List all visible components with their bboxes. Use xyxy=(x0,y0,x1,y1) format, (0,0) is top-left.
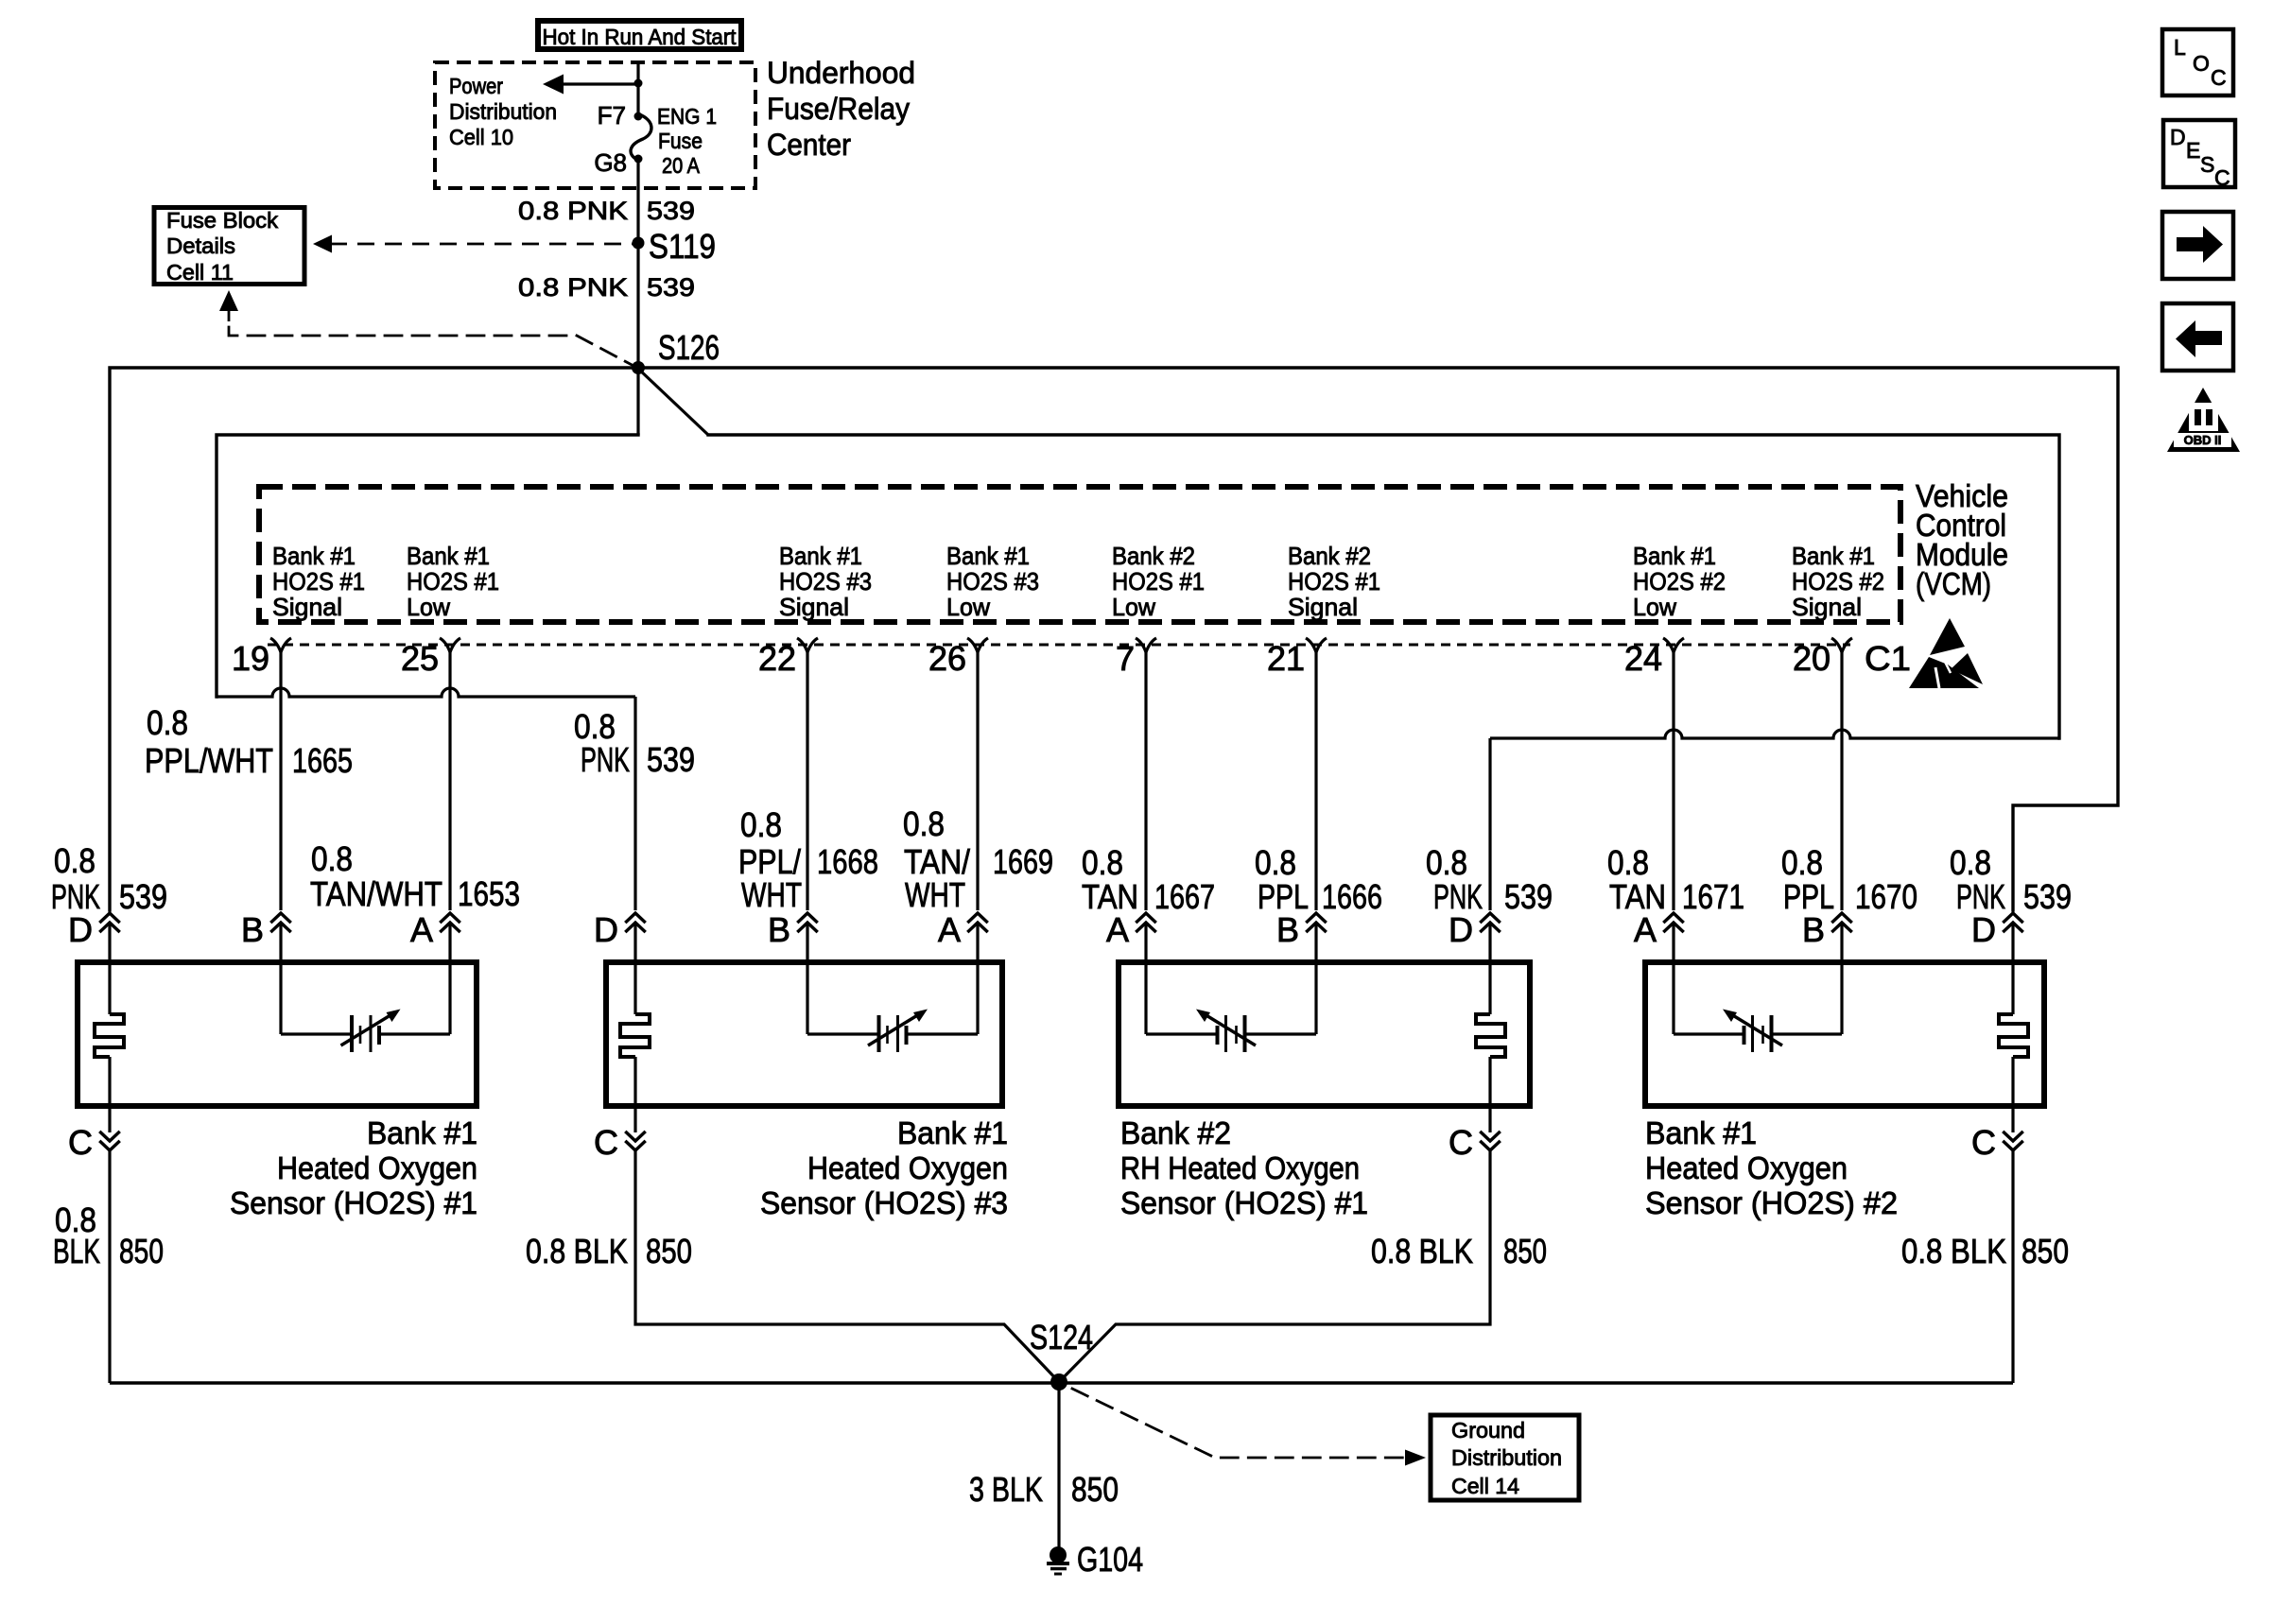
svg-text:1653: 1653 xyxy=(458,874,520,913)
sensor element wire right xyxy=(1771,1032,1842,1035)
heater element xyxy=(620,1014,650,1057)
wire heater to C pin xyxy=(108,1057,111,1132)
svg-text:Bank #1: Bank #1 xyxy=(1633,542,1716,570)
connector arrows at C pin xyxy=(2004,1132,2022,1141)
connector arrows at D pin xyxy=(1482,913,1500,922)
connector arrows at B pin xyxy=(799,913,817,922)
connector arrows at A pin xyxy=(969,913,987,922)
svg-text:1669: 1669 xyxy=(993,842,1053,881)
sensor element wire left xyxy=(807,1032,879,1035)
wire B/A into sensor element xyxy=(1840,924,1843,1034)
wire: arrow to Power Distribution xyxy=(562,82,638,85)
wire B/A into sensor element xyxy=(1144,924,1147,1034)
svg-text:E: E xyxy=(2186,138,2200,163)
icon OBD II triangle xyxy=(2167,388,2240,452)
svg-text:G8: G8 xyxy=(594,148,627,177)
wire from pin 19 xyxy=(279,650,282,910)
svg-text:0.8: 0.8 xyxy=(147,703,188,742)
wire B/A into sensor element xyxy=(448,924,451,1034)
wire from pin 24 xyxy=(1672,650,1674,910)
svg-text:850: 850 xyxy=(119,1232,164,1270)
svg-text:Cell 10: Cell 10 xyxy=(449,125,513,149)
svg-text:850: 850 xyxy=(646,1232,692,1270)
connector arrows at B pin xyxy=(272,913,290,922)
svg-text:S124: S124 xyxy=(1030,1318,1093,1356)
svg-text:19: 19 xyxy=(232,639,269,678)
wire: PNK 539 inner rail right segment xyxy=(708,435,2059,738)
label box: Ground Distribution Cell 14 xyxy=(1431,1415,1579,1500)
svg-text:F7: F7 xyxy=(598,101,626,130)
wire D into heater xyxy=(1488,924,1491,1014)
svg-text:Center: Center xyxy=(767,128,851,162)
svg-text:850: 850 xyxy=(2021,1232,2069,1270)
sensor element wire right xyxy=(906,1032,978,1035)
svg-text:539: 539 xyxy=(2023,877,2072,916)
svg-text:RH Heated Oxygen: RH Heated Oxygen xyxy=(1120,1150,1360,1185)
svg-text:D: D xyxy=(1971,910,1996,949)
svg-text:D: D xyxy=(594,910,618,949)
svg-text:Bank #1: Bank #1 xyxy=(367,1115,477,1150)
svg-text:0.8: 0.8 xyxy=(1607,843,1649,882)
svg-text:Fuse Block: Fuse Block xyxy=(166,208,279,233)
heater element xyxy=(95,1014,124,1057)
splice S119 xyxy=(633,237,645,250)
wire B/A into sensor element xyxy=(1314,924,1317,1034)
wire D into heater xyxy=(108,924,111,1014)
Underhood Fuse/Relay Center dashed box xyxy=(435,62,755,188)
wire: 0.8 PNK 539 from fuse through S126 to inner rail xyxy=(636,159,639,435)
label box: Hot In Run And Start xyxy=(538,21,741,49)
svg-text:0.8: 0.8 xyxy=(1255,843,1296,882)
svg-text:Fuse/Relay: Fuse/Relay xyxy=(767,92,910,126)
svg-text:7: 7 xyxy=(1116,639,1135,678)
svg-text:Sensor (HO2S) #1: Sensor (HO2S) #1 xyxy=(1120,1185,1368,1220)
icon right arrow xyxy=(2162,212,2233,279)
wire: inner rail left branch with hops xyxy=(217,688,635,697)
sensor element wire left xyxy=(281,1032,353,1035)
svg-text:0.8: 0.8 xyxy=(311,839,353,878)
connector arrows at D pin xyxy=(627,913,645,922)
ESD sensitivity symbol xyxy=(1930,618,1965,655)
svg-text:Signal: Signal xyxy=(272,593,342,621)
svg-text:Sensor (HO2S) #2: Sensor (HO2S) #2 xyxy=(1645,1185,1898,1220)
wire 3 BLK 850 to ground xyxy=(1057,1382,1060,1550)
wire: hot feed into fuse F7 xyxy=(636,62,639,116)
connector arrows at C pin xyxy=(1482,1132,1500,1141)
svg-text:Signal: Signal xyxy=(1288,593,1358,621)
pin 7 connector bracket xyxy=(1136,638,1156,652)
wire B/A into sensor element xyxy=(279,924,282,1034)
wire BLK 850 from RH HO2S#1 C to S124 xyxy=(1059,1150,1490,1382)
pin 26 connector bracket xyxy=(967,638,988,652)
svg-text:Sensor (HO2S) #1: Sensor (HO2S) #1 xyxy=(230,1185,477,1220)
svg-text:1667: 1667 xyxy=(1154,877,1215,916)
svg-text:Distribution: Distribution xyxy=(1451,1445,1562,1470)
connector arrows at A pin xyxy=(1665,913,1683,922)
heater element xyxy=(1999,1014,2028,1057)
svg-text:Ground: Ground xyxy=(1451,1418,1525,1443)
svg-text:Fuse: Fuse xyxy=(658,129,703,153)
svg-text:Underhood: Underhood xyxy=(767,56,915,90)
svg-text:D: D xyxy=(68,910,93,949)
svg-text:ENG 1: ENG 1 xyxy=(657,104,717,129)
wire BLK 850 bottom rail xyxy=(110,1381,2013,1385)
svg-text:HO2S #3: HO2S #3 xyxy=(946,567,1039,596)
svg-text:Heated Oxygen: Heated Oxygen xyxy=(1645,1150,1848,1185)
pin 25 connector bracket xyxy=(440,638,460,652)
wire heater to C pin xyxy=(1488,1057,1491,1132)
sensor element wire right xyxy=(1244,1032,1316,1035)
wire: PNK 539 inner rail left segment xyxy=(217,435,638,697)
connector arrows at C pin xyxy=(101,1132,119,1141)
wire D into heater xyxy=(2011,924,2014,1014)
svg-text:Details: Details xyxy=(166,233,235,258)
svg-text:C: C xyxy=(68,1123,93,1162)
svg-text:HO2S #3: HO2S #3 xyxy=(779,567,872,596)
svg-text:TAN/WHT: TAN/WHT xyxy=(310,874,442,913)
svg-text:Heated Oxygen: Heated Oxygen xyxy=(807,1150,1008,1185)
svg-text:Sensor (HO2S) #3: Sensor (HO2S) #3 xyxy=(760,1185,1008,1220)
svg-text:0.8: 0.8 xyxy=(1950,843,1991,882)
svg-text:B: B xyxy=(1276,910,1299,949)
svg-text:O: O xyxy=(2193,51,2210,76)
svg-text:1668: 1668 xyxy=(817,842,878,881)
node: junction to Power Distribution arrow xyxy=(634,79,643,88)
pin 21 connector bracket xyxy=(1306,638,1327,652)
svg-text:HO2S #1: HO2S #1 xyxy=(272,567,365,596)
svg-text:0.8: 0.8 xyxy=(1082,843,1123,882)
svg-text:BLK: BLK xyxy=(53,1232,100,1270)
svg-text:C: C xyxy=(1449,1123,1473,1162)
svg-text:22: 22 xyxy=(758,639,796,678)
svg-text:PNK: PNK xyxy=(581,740,630,779)
svg-text:A: A xyxy=(938,910,961,949)
svg-text:Signal: Signal xyxy=(779,593,849,621)
wire: down to HO2S#3-D xyxy=(633,697,636,910)
svg-text:21: 21 xyxy=(1267,639,1305,678)
svg-text:Bank #2: Bank #2 xyxy=(1288,542,1371,570)
svg-text:Signal: Signal xyxy=(1792,593,1862,621)
svg-text:0.8: 0.8 xyxy=(903,804,945,843)
svg-text:850: 850 xyxy=(1503,1232,1547,1270)
svg-text:HO2S #1: HO2S #1 xyxy=(407,567,499,596)
wire from pin 26 xyxy=(976,650,979,910)
svg-text:Bank #2: Bank #2 xyxy=(1120,1115,1231,1150)
svg-text:S: S xyxy=(2200,152,2214,177)
arrowhead left xyxy=(543,75,564,95)
arrowhead to Fuse Block Details xyxy=(313,235,332,253)
svg-text:Bank #1: Bank #1 xyxy=(897,1115,1008,1150)
icon DESC xyxy=(2163,120,2235,187)
svg-text:Power: Power xyxy=(449,74,503,98)
Vehicle Control Module (VCM) dashed box xyxy=(259,487,1900,622)
node F7 xyxy=(634,112,643,121)
svg-text:Bank #1: Bank #1 xyxy=(779,542,862,570)
splice S126 xyxy=(632,361,645,374)
wire from pin 21 xyxy=(1314,650,1317,910)
svg-text:A: A xyxy=(1634,910,1657,949)
sensor element wire left xyxy=(1674,1032,1744,1035)
svg-text:Bank #1: Bank #1 xyxy=(272,542,356,570)
svg-text:3 BLK: 3 BLK xyxy=(969,1470,1043,1509)
svg-text:Heated Oxygen: Heated Oxygen xyxy=(277,1150,477,1185)
svg-text:HO2S #2: HO2S #2 xyxy=(1633,567,1726,596)
svg-text:0.8: 0.8 xyxy=(740,805,782,844)
svg-text:HO2S #2: HO2S #2 xyxy=(1792,567,1884,596)
svg-text:Bank #1: Bank #1 xyxy=(407,542,490,570)
wire from pin 25 xyxy=(448,650,451,910)
svg-text:Bank #2: Bank #2 xyxy=(1112,542,1195,570)
sensor HO2S #2 box xyxy=(1645,962,2044,1106)
svg-text:24: 24 xyxy=(1624,639,1662,678)
svg-text:C: C xyxy=(2214,165,2230,190)
fuse ENG 1 Fuse 20 A xyxy=(631,114,651,160)
dashed ref from S126 to Fuse Block Details xyxy=(219,290,238,311)
wire heater to C pin xyxy=(2011,1057,2014,1132)
connector C1 dashed edge xyxy=(268,644,1850,647)
svg-text:20: 20 xyxy=(1793,639,1831,678)
svg-text:B: B xyxy=(768,910,790,949)
svg-text:OBD II: OBD II xyxy=(2184,433,2222,447)
pin 24 connector bracket xyxy=(1663,638,1684,652)
pin 20 connector bracket xyxy=(1831,638,1852,652)
connector arrows at B pin xyxy=(1833,913,1851,922)
wire from pin 7 xyxy=(1144,650,1147,910)
variable resistance sensing element xyxy=(877,1015,881,1052)
svg-text:L: L xyxy=(2174,35,2186,60)
variable resistance sensing element xyxy=(350,1015,354,1052)
wire BLK 850 right rail down xyxy=(2011,1150,2014,1383)
svg-text:G104: G104 xyxy=(1077,1540,1143,1579)
label box: Fuse Block Details Cell 11 xyxy=(154,208,304,285)
svg-text:WHT: WHT xyxy=(741,875,802,914)
svg-text:A: A xyxy=(410,910,433,949)
sensor RH HO2S #1 box xyxy=(1119,962,1530,1106)
connector arrows at A pin xyxy=(442,913,460,922)
svg-text:WHT: WHT xyxy=(905,875,965,914)
svg-text:539: 539 xyxy=(119,877,167,916)
svg-text:1671: 1671 xyxy=(1682,877,1744,916)
wire: down to RH HO2S#1-D xyxy=(1488,738,1491,910)
svg-text:B: B xyxy=(241,910,264,949)
wire: inner rail right branch with hops xyxy=(1490,730,2059,738)
connector arrows at C pin xyxy=(627,1132,645,1141)
svg-text:Low: Low xyxy=(946,593,990,621)
svg-text:A: A xyxy=(1106,910,1129,949)
svg-text:HO2S #1: HO2S #1 xyxy=(1112,567,1205,596)
svg-text:539: 539 xyxy=(647,740,695,779)
wire D into heater xyxy=(633,924,636,1014)
sensor element wire left xyxy=(1146,1032,1218,1035)
svg-text:Hot In Run And Start: Hot In Run And Start xyxy=(543,25,737,49)
svg-text:0.8 PNK: 0.8 PNK xyxy=(518,197,628,225)
icon LOC xyxy=(2162,29,2233,95)
svg-text:Low: Low xyxy=(1112,593,1155,621)
connector arrows at D pin xyxy=(101,913,119,922)
wire BLK 850 left rail down xyxy=(108,1150,111,1383)
svg-text:D: D xyxy=(2170,125,2186,149)
svg-text:Cell 14: Cell 14 xyxy=(1451,1474,1519,1498)
pin 19 connector bracket xyxy=(270,638,291,652)
dashed ref to Fuse Block Details xyxy=(330,243,638,246)
svg-text:1670: 1670 xyxy=(1855,877,1917,916)
svg-text:0.8 BLK: 0.8 BLK xyxy=(526,1232,628,1270)
connector arrows at B pin xyxy=(1308,913,1326,922)
svg-text:850: 850 xyxy=(1071,1470,1119,1509)
svg-text:20 A: 20 A xyxy=(662,153,701,178)
svg-text:B: B xyxy=(1802,910,1825,949)
svg-text:0.8 BLK: 0.8 BLK xyxy=(1371,1232,1473,1270)
connector arrows at A pin xyxy=(1137,913,1155,922)
svg-text:Bank #1: Bank #1 xyxy=(1792,542,1875,570)
wire: S126 diagonal to inner rail right segment xyxy=(638,369,708,435)
svg-text:0.8: 0.8 xyxy=(1781,843,1823,882)
svg-text:S119: S119 xyxy=(649,227,716,266)
svg-text:PPL/WHT: PPL/WHT xyxy=(145,741,273,780)
svg-text:539: 539 xyxy=(647,273,695,302)
ground G104 xyxy=(1050,1546,1067,1564)
svg-text:C: C xyxy=(594,1123,618,1162)
wire heater to C pin xyxy=(633,1057,636,1132)
svg-text:25: 25 xyxy=(401,639,439,678)
wire from pin 22 xyxy=(806,650,808,910)
splice S124 xyxy=(1050,1373,1067,1391)
svg-text:Low: Low xyxy=(1633,593,1676,621)
wire from pin 20 xyxy=(1840,650,1843,910)
svg-text:539: 539 xyxy=(1504,877,1553,916)
svg-text:S126: S126 xyxy=(658,328,720,367)
wire BLK 850 from HO2S#3 C to S124 xyxy=(635,1150,1059,1382)
icon left arrow xyxy=(2162,303,2233,371)
sensor HO2S #3 box xyxy=(606,962,1002,1106)
svg-text:Low: Low xyxy=(407,593,450,621)
sensor element wire right xyxy=(379,1032,451,1035)
svg-text:0.8: 0.8 xyxy=(1426,843,1467,882)
sensor HO2S #1 box xyxy=(78,962,477,1106)
heater element xyxy=(1476,1014,1505,1057)
variable resistance sensing element xyxy=(1770,1015,1774,1052)
svg-text:C: C xyxy=(1971,1123,1996,1162)
svg-text:Distribution: Distribution xyxy=(449,99,557,124)
svg-text:539: 539 xyxy=(647,197,695,225)
svg-text:C: C xyxy=(2211,65,2227,90)
svg-text:0.8 PNK: 0.8 PNK xyxy=(518,273,628,302)
svg-text:Bank #1: Bank #1 xyxy=(1645,1115,1757,1150)
svg-text:0.8: 0.8 xyxy=(54,841,95,880)
svg-text:1665: 1665 xyxy=(292,741,353,780)
variable resistance sensing element xyxy=(1243,1015,1247,1052)
svg-text:26: 26 xyxy=(928,639,966,678)
wire B/A into sensor element xyxy=(806,924,808,1034)
svg-text:Bank #1: Bank #1 xyxy=(946,542,1030,570)
svg-text:(VCM): (VCM) xyxy=(1916,566,1991,601)
wire B/A into sensor element xyxy=(976,924,979,1034)
node G8 xyxy=(634,155,643,164)
svg-text:Cell 11: Cell 11 xyxy=(166,260,234,285)
dashed ref to Ground Distribution xyxy=(1072,1389,1413,1458)
pin 22 connector bracket xyxy=(797,638,818,652)
svg-text:HO2S #1: HO2S #1 xyxy=(1288,567,1380,596)
svg-text:C1: C1 xyxy=(1865,639,1911,678)
svg-text:D: D xyxy=(1449,910,1473,949)
wire B/A into sensor element xyxy=(1672,924,1674,1034)
connector arrows at D pin xyxy=(2004,913,2022,922)
svg-text:1666: 1666 xyxy=(1322,877,1382,916)
svg-text:0.8 BLK: 0.8 BLK xyxy=(1901,1232,2006,1270)
wire: PNK 539 top rail from S126 to HO2S#1-D (left) and HO2S#2-D (right) xyxy=(110,368,2118,910)
